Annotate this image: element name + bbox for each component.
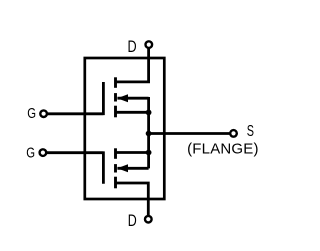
svg-text:G: G bbox=[26, 144, 35, 161]
svg-text:D: D bbox=[128, 213, 137, 231]
svg-text:G: G bbox=[27, 105, 36, 122]
svg-text:(FLANGE): (FLANGE) bbox=[187, 141, 259, 158]
svg-text:D: D bbox=[128, 38, 137, 56]
svg-text:S: S bbox=[247, 122, 254, 139]
